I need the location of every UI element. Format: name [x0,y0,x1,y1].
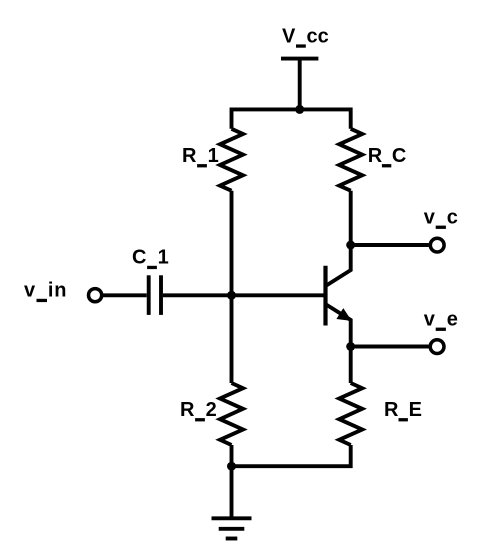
wire ground stem [230,466,234,518]
power supply V_cc bar [281,57,318,61]
node junction top [295,105,304,114]
ground [212,516,252,520]
wire v_c tap [351,243,429,247]
wire V_cc stem [298,59,302,110]
wire v_in to C_1 [103,293,147,297]
wire left rail middle [230,191,234,383]
wire base [163,293,326,297]
svg-text:v_c: v_c [424,207,459,229]
svg-text:C_1: C_1 [132,247,169,269]
node junction base [227,291,236,300]
transistor Q1 emitter [326,305,350,347]
svg-text:V_cc: V_cc [282,25,329,47]
wire v_e tap [351,345,429,349]
wire emitter to R_E [349,347,353,384]
wire collector [326,191,350,286]
svg-text:R_E: R_E [384,399,422,421]
capacitor C_1 [147,275,151,315]
transistor Q1 base bar [323,266,327,326]
wire top rail [232,109,351,128]
svg-text:v_in: v_in [24,280,67,302]
svg-text:R_2: R_2 [180,399,217,421]
resistor R_E [339,383,362,445]
node junction v_c [346,241,355,250]
resistor R_1 [220,129,243,191]
svg-text:v_e: v_e [424,309,459,331]
terminal v_c [430,238,444,252]
svg-text:R_C: R_C [368,145,406,167]
terminal v_e [430,340,444,354]
wire left rail bottom [230,445,234,466]
resistor R_2 [220,383,243,445]
svg-text:R_1: R_1 [182,145,219,167]
transistor Q1 emitter arrow [337,309,350,320]
resistor R_C [339,129,362,191]
terminal v_in [89,289,102,302]
wire bottom rail [232,445,351,466]
node junction bottom [227,462,236,471]
node junction v_e [346,342,355,351]
